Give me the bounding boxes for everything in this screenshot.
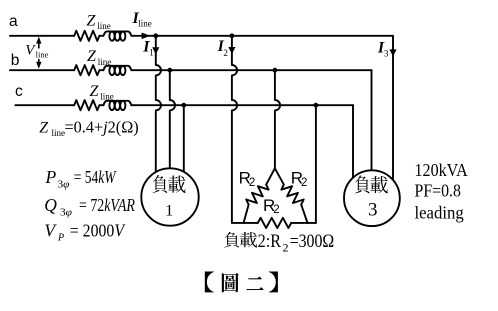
svg-text:line: line bbox=[98, 57, 112, 67]
label load1 number 1 bbox=[165, 200, 173, 219]
svg-text:2: 2 bbox=[223, 48, 228, 58]
label P3phi equation bbox=[45, 167, 117, 190]
svg-text:a: a bbox=[9, 13, 18, 30]
svg-text:120kVA: 120kVA bbox=[415, 160, 468, 180]
resistor R2 right (delta right side) bbox=[275, 168, 308, 223]
svg-text:=0.4+j2(Ω): =0.4+j2(Ω) bbox=[65, 117, 139, 136]
inductor Zline phase a bbox=[99, 31, 131, 40]
inductor Zline phase b bbox=[99, 66, 131, 75]
svg-text:2: 2 bbox=[301, 177, 307, 189]
svg-text:1: 1 bbox=[165, 200, 173, 219]
label load3 number 3 bbox=[368, 199, 378, 220]
svg-text:line: line bbox=[100, 92, 114, 102]
svg-text:= 72kVAR: = 72kVAR bbox=[79, 195, 135, 215]
wire drop phase c to load1 bbox=[183, 105, 185, 172]
label Vline bbox=[25, 42, 48, 59]
resistor R2 left (delta left side) bbox=[244, 168, 275, 223]
svg-text:2:R: 2:R bbox=[258, 231, 282, 252]
svg-text:1: 1 bbox=[149, 47, 154, 57]
node c label bbox=[15, 83, 23, 100]
wire phase a to corner bbox=[131, 35, 393, 37]
svg-text:line: line bbox=[97, 21, 111, 31]
voltage arrow Vline down head bbox=[36, 60, 41, 69]
load U3 circle bbox=[344, 170, 400, 226]
wire phase b to corner bbox=[131, 69, 371, 71]
svg-text:Z: Z bbox=[87, 12, 97, 29]
svg-text:2: 2 bbox=[273, 204, 279, 216]
node a label bbox=[9, 13, 18, 30]
junction phase a / load1 tap bbox=[153, 33, 158, 38]
junction phase c / load1 tap bbox=[181, 103, 186, 108]
label R2 left bbox=[239, 169, 256, 189]
label Zline phase a bbox=[87, 12, 111, 31]
label load2 value 負載2:R2=300 ohm bbox=[224, 231, 334, 254]
svg-text:3φ: 3φ bbox=[60, 207, 73, 218]
svg-text:Z: Z bbox=[39, 119, 49, 136]
wire phase b left bbox=[10, 69, 74, 71]
svg-text:3φ: 3φ bbox=[58, 179, 71, 190]
junction phase a / load2 tap bbox=[230, 33, 235, 38]
load U1 circle bbox=[141, 168, 198, 225]
wire phase c to corner bbox=[131, 104, 353, 106]
wire phase c left bbox=[15, 104, 74, 106]
label VP equation bbox=[44, 220, 126, 243]
svg-text:3: 3 bbox=[384, 48, 389, 58]
svg-text:c: c bbox=[15, 83, 23, 100]
label Zline phase c bbox=[90, 83, 114, 102]
label R2 right bbox=[291, 169, 308, 189]
svg-text:3: 3 bbox=[368, 199, 378, 220]
label Iline bbox=[132, 10, 152, 28]
svg-text:b: b bbox=[11, 52, 20, 69]
label load3 負載 bbox=[355, 175, 388, 193]
current arrow I3 bbox=[389, 49, 396, 56]
resistor R2 bottom (delta bottom) bbox=[232, 218, 316, 228]
svg-text:2: 2 bbox=[249, 177, 255, 189]
svg-text:line: line bbox=[52, 128, 66, 138]
wire drop phase c to load2 right bbox=[315, 105, 317, 223]
label Zline phase b bbox=[87, 48, 111, 67]
svg-text:2: 2 bbox=[283, 241, 289, 255]
svg-text:= 2000V: = 2000V bbox=[70, 220, 126, 240]
junction phase b / load2 tap bbox=[273, 68, 278, 73]
svg-text:leading: leading bbox=[415, 202, 464, 222]
label load1 負載 bbox=[153, 175, 186, 193]
label load3 PF=0.8 bbox=[415, 181, 461, 201]
svg-text:=300Ω: =300Ω bbox=[290, 231, 335, 252]
svg-text:P: P bbox=[45, 167, 57, 187]
label I2 bbox=[217, 38, 228, 58]
svg-text:Q: Q bbox=[44, 195, 57, 215]
current arrow I1 bbox=[152, 47, 159, 54]
svg-text:line: line bbox=[36, 50, 49, 60]
resistor Zline phase a bbox=[74, 31, 99, 41]
label Q3phi equation bbox=[44, 195, 135, 218]
figure caption 【圖二】 bbox=[205, 272, 278, 293]
inductor Zline phase c bbox=[99, 101, 131, 110]
svg-text:Z: Z bbox=[90, 83, 100, 100]
resistor Zline phase b bbox=[74, 65, 99, 75]
junction phase b / load1 tap bbox=[167, 68, 172, 73]
svg-text:= 54kW: = 54kW bbox=[74, 167, 117, 187]
wire phase a corner drop to load3 bbox=[392, 36, 394, 180]
wire phase b corner drop to load3 bbox=[371, 70, 373, 170]
wire drop phase b to load2 apex (hop c) bbox=[275, 70, 280, 168]
wire drop phase a to load1 (hops b,c) bbox=[156, 36, 161, 172]
label Zline value equation bbox=[39, 117, 139, 138]
label I1 bbox=[142, 38, 154, 57]
svg-text:line: line bbox=[138, 18, 152, 28]
svg-text:P: P bbox=[57, 233, 64, 244]
wire phase a left bbox=[10, 35, 74, 37]
label I3 bbox=[377, 40, 389, 59]
label load3 rating 120kVA bbox=[415, 160, 468, 180]
wire phase c corner drop to load3 bbox=[352, 105, 354, 178]
label R2 middle bbox=[263, 196, 280, 216]
node b label bbox=[11, 52, 20, 69]
label load3 leading bbox=[415, 202, 464, 222]
svg-text:PF=0.8: PF=0.8 bbox=[415, 181, 461, 201]
junction phase c / load2 tap bbox=[314, 103, 319, 108]
current arrow Iline bbox=[142, 33, 151, 40]
svg-text:Z: Z bbox=[87, 48, 97, 65]
wire drop phase b to load1 (hop c) bbox=[170, 70, 175, 168]
voltage arrow Vline up head bbox=[36, 37, 41, 48]
current arrow I2 bbox=[228, 47, 235, 54]
wire drop phase a to load2 delta (hops b,c) bbox=[232, 36, 237, 223]
resistor Zline phase c bbox=[74, 100, 99, 110]
